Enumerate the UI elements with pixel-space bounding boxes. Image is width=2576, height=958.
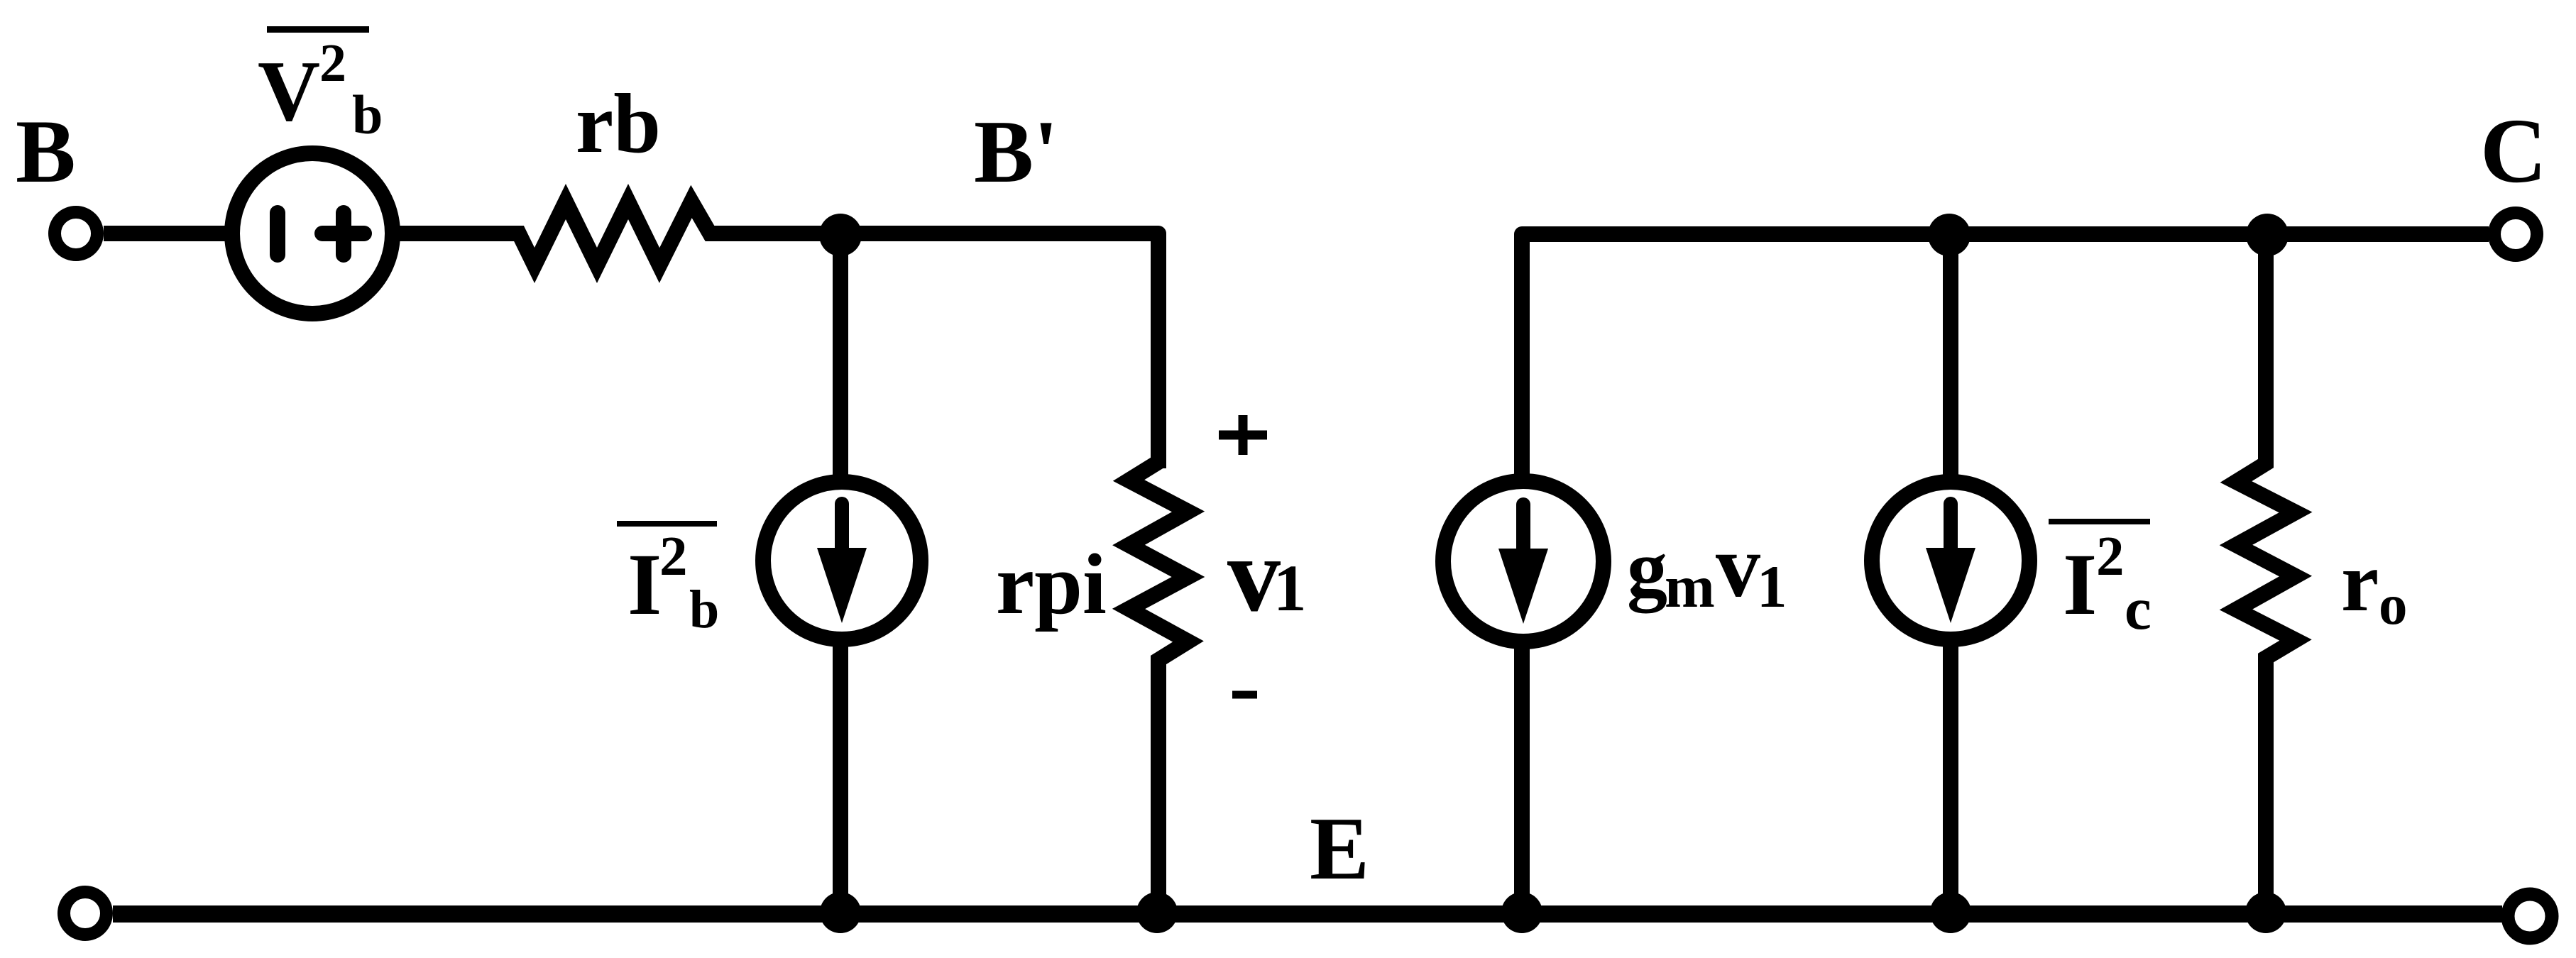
svg-text:c: c <box>2125 576 2152 642</box>
terminal C (open circle, top right) <box>2494 213 2537 255</box>
svg-text:2: 2 <box>659 526 688 588</box>
label I2c with overline <box>2049 519 2152 642</box>
wire V2b source to rb <box>390 226 522 241</box>
I2b arrow (downward) <box>817 504 867 623</box>
terminal bottom left (open circle) <box>64 892 106 935</box>
noise voltage source V2b (circle) <box>232 153 393 314</box>
label I2b with overline <box>617 521 719 639</box>
svg-text:2: 2 <box>2096 526 2125 588</box>
svg-text:I: I <box>627 536 662 633</box>
svg-text:m: m <box>1665 554 1715 620</box>
node on top rail above ro <box>2246 214 2289 256</box>
svg-text:V: V <box>258 43 320 139</box>
node B' (junction dot) <box>819 214 862 256</box>
svg-text:I: I <box>2063 536 2097 633</box>
svg-text:rpi: rpi <box>996 536 1107 632</box>
junction dot below I2c on bottom rail <box>1930 892 1971 933</box>
resistor rb (zigzag) <box>497 202 738 265</box>
junction dot below rpi on bottom rail <box>1136 892 1178 933</box>
wire rb to rpi corner, turning down at rpi <box>712 233 1158 468</box>
svg-text:b: b <box>352 84 383 145</box>
node on top rail above I2c <box>1928 214 1971 256</box>
svg-text:b: b <box>689 580 719 639</box>
gm v1 arrow (downward) <box>1498 505 1548 624</box>
svg-text:g: g <box>1627 523 1667 613</box>
junction dot below ro on bottom rail <box>2245 892 2286 933</box>
label v1 <box>1227 516 1307 634</box>
terminal B (open circle, top left) <box>55 212 97 255</box>
svg-text:2: 2 <box>319 33 346 93</box>
label gm v1 <box>1627 517 1787 620</box>
wire node B' down to I2b source <box>833 235 848 483</box>
junction dot below gm v1 on bottom rail <box>1501 892 1542 933</box>
svg-text:r: r <box>2341 534 2379 629</box>
label V2b with overline <box>258 26 383 145</box>
svg-text:v: v <box>1716 517 1760 616</box>
terminal bottom right (open circle) <box>2508 894 2552 938</box>
svg-text:v: v <box>1227 516 1281 634</box>
label ro <box>2341 534 2408 637</box>
wire I2c source down to bottom rail <box>1943 639 1958 914</box>
V2b source polarity plus sign <box>322 213 364 255</box>
wire top rail down to I2c source <box>1943 235 1958 483</box>
wire gm v1 source down to bottom rail <box>1514 639 1530 914</box>
noise current source I2b (circle) <box>763 482 921 639</box>
label - (bottom of v1) <box>1232 691 1257 699</box>
svg-text:E: E <box>1310 800 1369 898</box>
svg-text:C: C <box>2480 100 2547 202</box>
svg-text:rb: rb <box>576 76 661 170</box>
svg-text:1: 1 <box>1757 554 1787 620</box>
noise current source I2c (circle) <box>1872 482 2029 639</box>
svg-text:B: B <box>16 102 76 202</box>
svg-text:B': B' <box>974 103 1058 202</box>
bottom rail (emitter) <box>113 905 2502 923</box>
controlled current source gm v1 (circle) <box>1443 481 1604 642</box>
svg-text:1: 1 <box>1273 552 1307 625</box>
wire B to V2b source <box>104 226 227 241</box>
label + (top of v1) <box>1219 415 1267 455</box>
resistor rpi (vertical zigzag with leads down to bottom rail) <box>1129 433 1188 914</box>
wire gm v1 branch: top corner and rail to C <box>1522 234 2489 483</box>
junction dot below I2b on bottom rail <box>820 892 861 933</box>
svg-text:o: o <box>2379 573 2408 637</box>
I2c arrow (downward) <box>1926 504 1975 623</box>
wire I2b source down to bottom rail <box>833 639 848 914</box>
resistor ro (vertical zigzag with leads) <box>2236 235 2296 914</box>
V2b source polarity minus bar <box>270 213 285 255</box>
